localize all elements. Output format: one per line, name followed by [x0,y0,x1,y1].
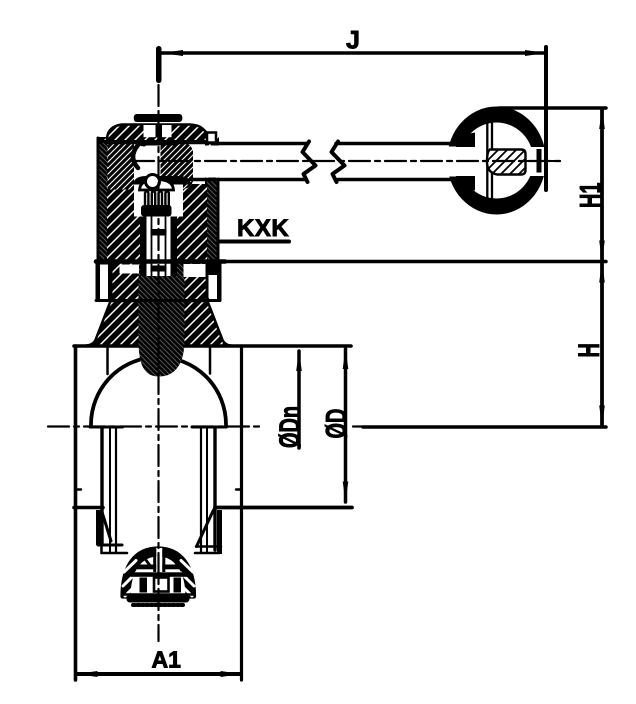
handle break left zigzag [303,142,316,183]
bore line left outer [100,429,103,546]
bonnet flange left white window [100,265,108,299]
A1 right arrow [221,671,242,677]
bonnet flange bottom line [96,299,220,302]
bottom cap slot bar left [153,549,156,572]
svg-text:ØD: ØD [322,409,353,439]
dimension ODn line [297,351,301,448]
union nut right cone line [197,510,214,547]
bonnet flange right inner bar [206,262,210,302]
H bottom arrow [599,406,605,427]
knob inner vertical line 1 [486,123,488,198]
knob ring left cut for shaft [445,147,470,177]
bottom cap flank stripe left 1 [124,561,136,573]
stem slot wall left [140,217,147,277]
pivot dome white notch right [162,125,172,137]
bearing block right dark [161,144,195,189]
bottom cap slot bar right [162,549,165,572]
housing flange bottom line [96,259,225,264]
H1 top reference line [499,106,606,110]
adjuster nut band [141,205,172,217]
valve body right outer wall / A1 extension line [240,346,243,680]
svg-text:ØDn: ØDn [275,406,306,448]
bottom cap knurl fringe [133,603,183,607]
bottom cap flank stripe left 2 [123,573,136,586]
seat wall left [106,347,109,374]
H top arrow [599,262,605,283]
dimension J left arrow [162,50,183,56]
svg-text:A1: A1 [152,647,182,673]
H1 bottom arrow [599,241,605,262]
knob ring lip top [456,133,475,148]
union nut right step upper [196,545,221,548]
bottom cap nut bar right [174,578,182,593]
small tab right of dome [207,133,216,143]
bonnet trapezoid hatched [86,301,231,346]
bottom cap inner diagonal right [171,556,179,566]
bottom cap flank stripe right 3 [179,583,192,596]
valve stem dark column [139,262,185,377]
bottom cap nut bar left [140,578,148,593]
weld tick left [76,488,82,490]
pivot dark band [133,176,191,185]
washer band under cap [136,138,177,146]
pivot dome notch divider [156,124,163,138]
KXK leader underline [220,240,289,244]
horizontal body centerline dash stub [353,425,363,427]
handle centerline dashed [133,160,560,162]
dimension J line [161,51,546,55]
H1 top arrow [599,109,605,130]
handle break right zigzag [332,142,345,183]
bonnet flange white band right [184,264,206,277]
bottom cap slot white [156,548,162,572]
dome chord left [90,426,123,429]
body bottom edge left [74,506,103,510]
H1 H dimension vertical line [600,110,604,425]
body bottom edge right with dimension reference extension [215,506,352,510]
bore line right outer [213,429,216,551]
bore line left inner [115,429,117,553]
washer U arc [134,135,144,145]
handle shaft bottom line segment 1 [191,178,304,182]
dimension J right extension line [544,47,548,190]
bearing block left dark [108,138,135,190]
svg-text:J: J [346,27,360,55]
dimension A1 line [77,672,241,676]
seat wall right [209,347,212,374]
housing cavity white [134,140,205,184]
svg-text:H: H [573,343,606,357]
bonnet flange left inner bar [108,264,113,301]
union nut left cone line [102,512,111,541]
top cap bar [134,114,183,122]
dimension J left tick [156,46,162,83]
union nut left step lower [102,552,128,555]
housing right edge line [217,181,220,262]
bottom cap arch band black [123,549,195,597]
dimension OD line [344,349,348,502]
knob ball inner white [460,123,534,199]
H bottom reference line [363,425,606,429]
knob ring lip bottom [456,176,475,191]
union nut left bar [96,510,103,545]
stem slot rung lower [151,266,167,272]
union nut right bar [217,510,222,554]
bore line right inner [200,429,202,553]
bottom cap band B [131,572,188,577]
bottom cap bottom bar [127,596,190,603]
union nut left step connector [100,545,103,553]
pivot dome white notch left [144,125,156,137]
housing left edge line [97,138,100,262]
bonnet flange left outer bar [96,262,101,302]
OD bottom arrow [343,482,349,503]
valve body left outer wall / A1 extension line [74,346,78,680]
dimension J right arrow [525,50,546,56]
bonnet flange right outer bar [217,262,222,302]
bore line left mid [109,429,111,553]
stem slot wall right [171,217,178,277]
handle shaft bottom line segment 2 [338,178,469,182]
A1 left arrow [77,671,98,677]
knob slot divider bar [537,149,542,173]
handle shaft top line segment 1 [212,142,307,146]
stem slot rung upper [151,229,167,236]
bottom cap flank stripe right 1 [181,561,193,573]
stem top white arch [140,180,174,191]
stem slot white channel [147,217,171,277]
svg-text:H1: H1 [575,183,608,208]
stem slot inner line right [165,217,167,277]
valve body outline top edge [74,344,351,348]
bottom cap band A [135,565,183,570]
bonnet flange right jut [209,262,218,276]
vertical centerline [157,85,159,641]
housing outer wall dark band left [97,140,108,262]
pivot dome hatched [107,125,213,144]
bottom cap inner square [154,578,169,592]
knurl area white [134,185,183,217]
H1/H divider reference line [218,260,606,264]
actuator housing hatched block [97,137,220,262]
union nut left step upper [98,544,122,547]
bottom cap flank stripe left 3 [125,583,138,596]
spring C arc [133,145,138,168]
horizontal body centerline dashed [48,425,262,427]
bottom cap flank stripe right 2 [181,573,194,586]
bonnet flange white band left [120,265,140,274]
dome chord right [192,426,227,429]
bonnet flange hatched band [112,262,206,302]
weld tick right [236,488,242,490]
union nut right step lower [195,552,219,555]
bottom cap inner diagonal left [143,556,151,566]
knob centre solid line [525,160,560,162]
knob shaft top line into ring [455,142,470,146]
stem slot inner line left [151,217,153,277]
knob hatched screw block [487,150,526,175]
ODn top arrow [296,351,302,372]
handle shaft white channel [193,146,455,178]
bonnet flange gap filler left [100,262,112,266]
bore line right mid [206,429,208,553]
knob shaft bottom line into ring [455,178,470,182]
pivot dome underside edge [100,140,212,143]
knurled adjuster ribs [145,191,169,206]
OD top arrow [343,349,349,370]
bottom cap base line [123,593,195,596]
handle shaft top line segment 2 [336,142,469,146]
knob ball outer [447,107,546,215]
dome arc (diaphragm seat) [91,357,226,425]
knob ring right cut slot [525,147,545,176]
svg-text:KXK: KXK [237,215,289,242]
stem ball joint [146,175,160,189]
bonnet flange right white window [209,275,218,298]
housing outer wall dark band right [207,181,219,262]
knob inner vertical line 2 [491,123,493,198]
